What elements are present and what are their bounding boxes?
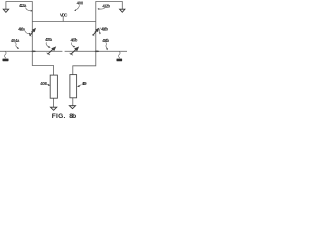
svg-text:412b: 412b — [102, 3, 110, 8]
svg-text:408: 408 — [40, 81, 47, 86]
svg-text:416a: 416a — [18, 26, 25, 31]
svg-text:VDC: VDC — [60, 13, 68, 18]
svg-text:407a: 407a — [45, 37, 53, 42]
svg-text:400: 400 — [77, 1, 84, 6]
svg-text:416b: 416b — [101, 27, 108, 32]
svg-text:FIG.: FIG. — [52, 113, 66, 120]
svg-text:412a: 412a — [19, 3, 27, 8]
svg-text:404a: 404a — [11, 38, 20, 43]
svg-text:8b: 8b — [69, 113, 76, 120]
svg-text:404b: 404b — [102, 38, 109, 43]
svg-text:409: 409 — [82, 81, 88, 86]
svg-text:407b: 407b — [71, 37, 78, 42]
